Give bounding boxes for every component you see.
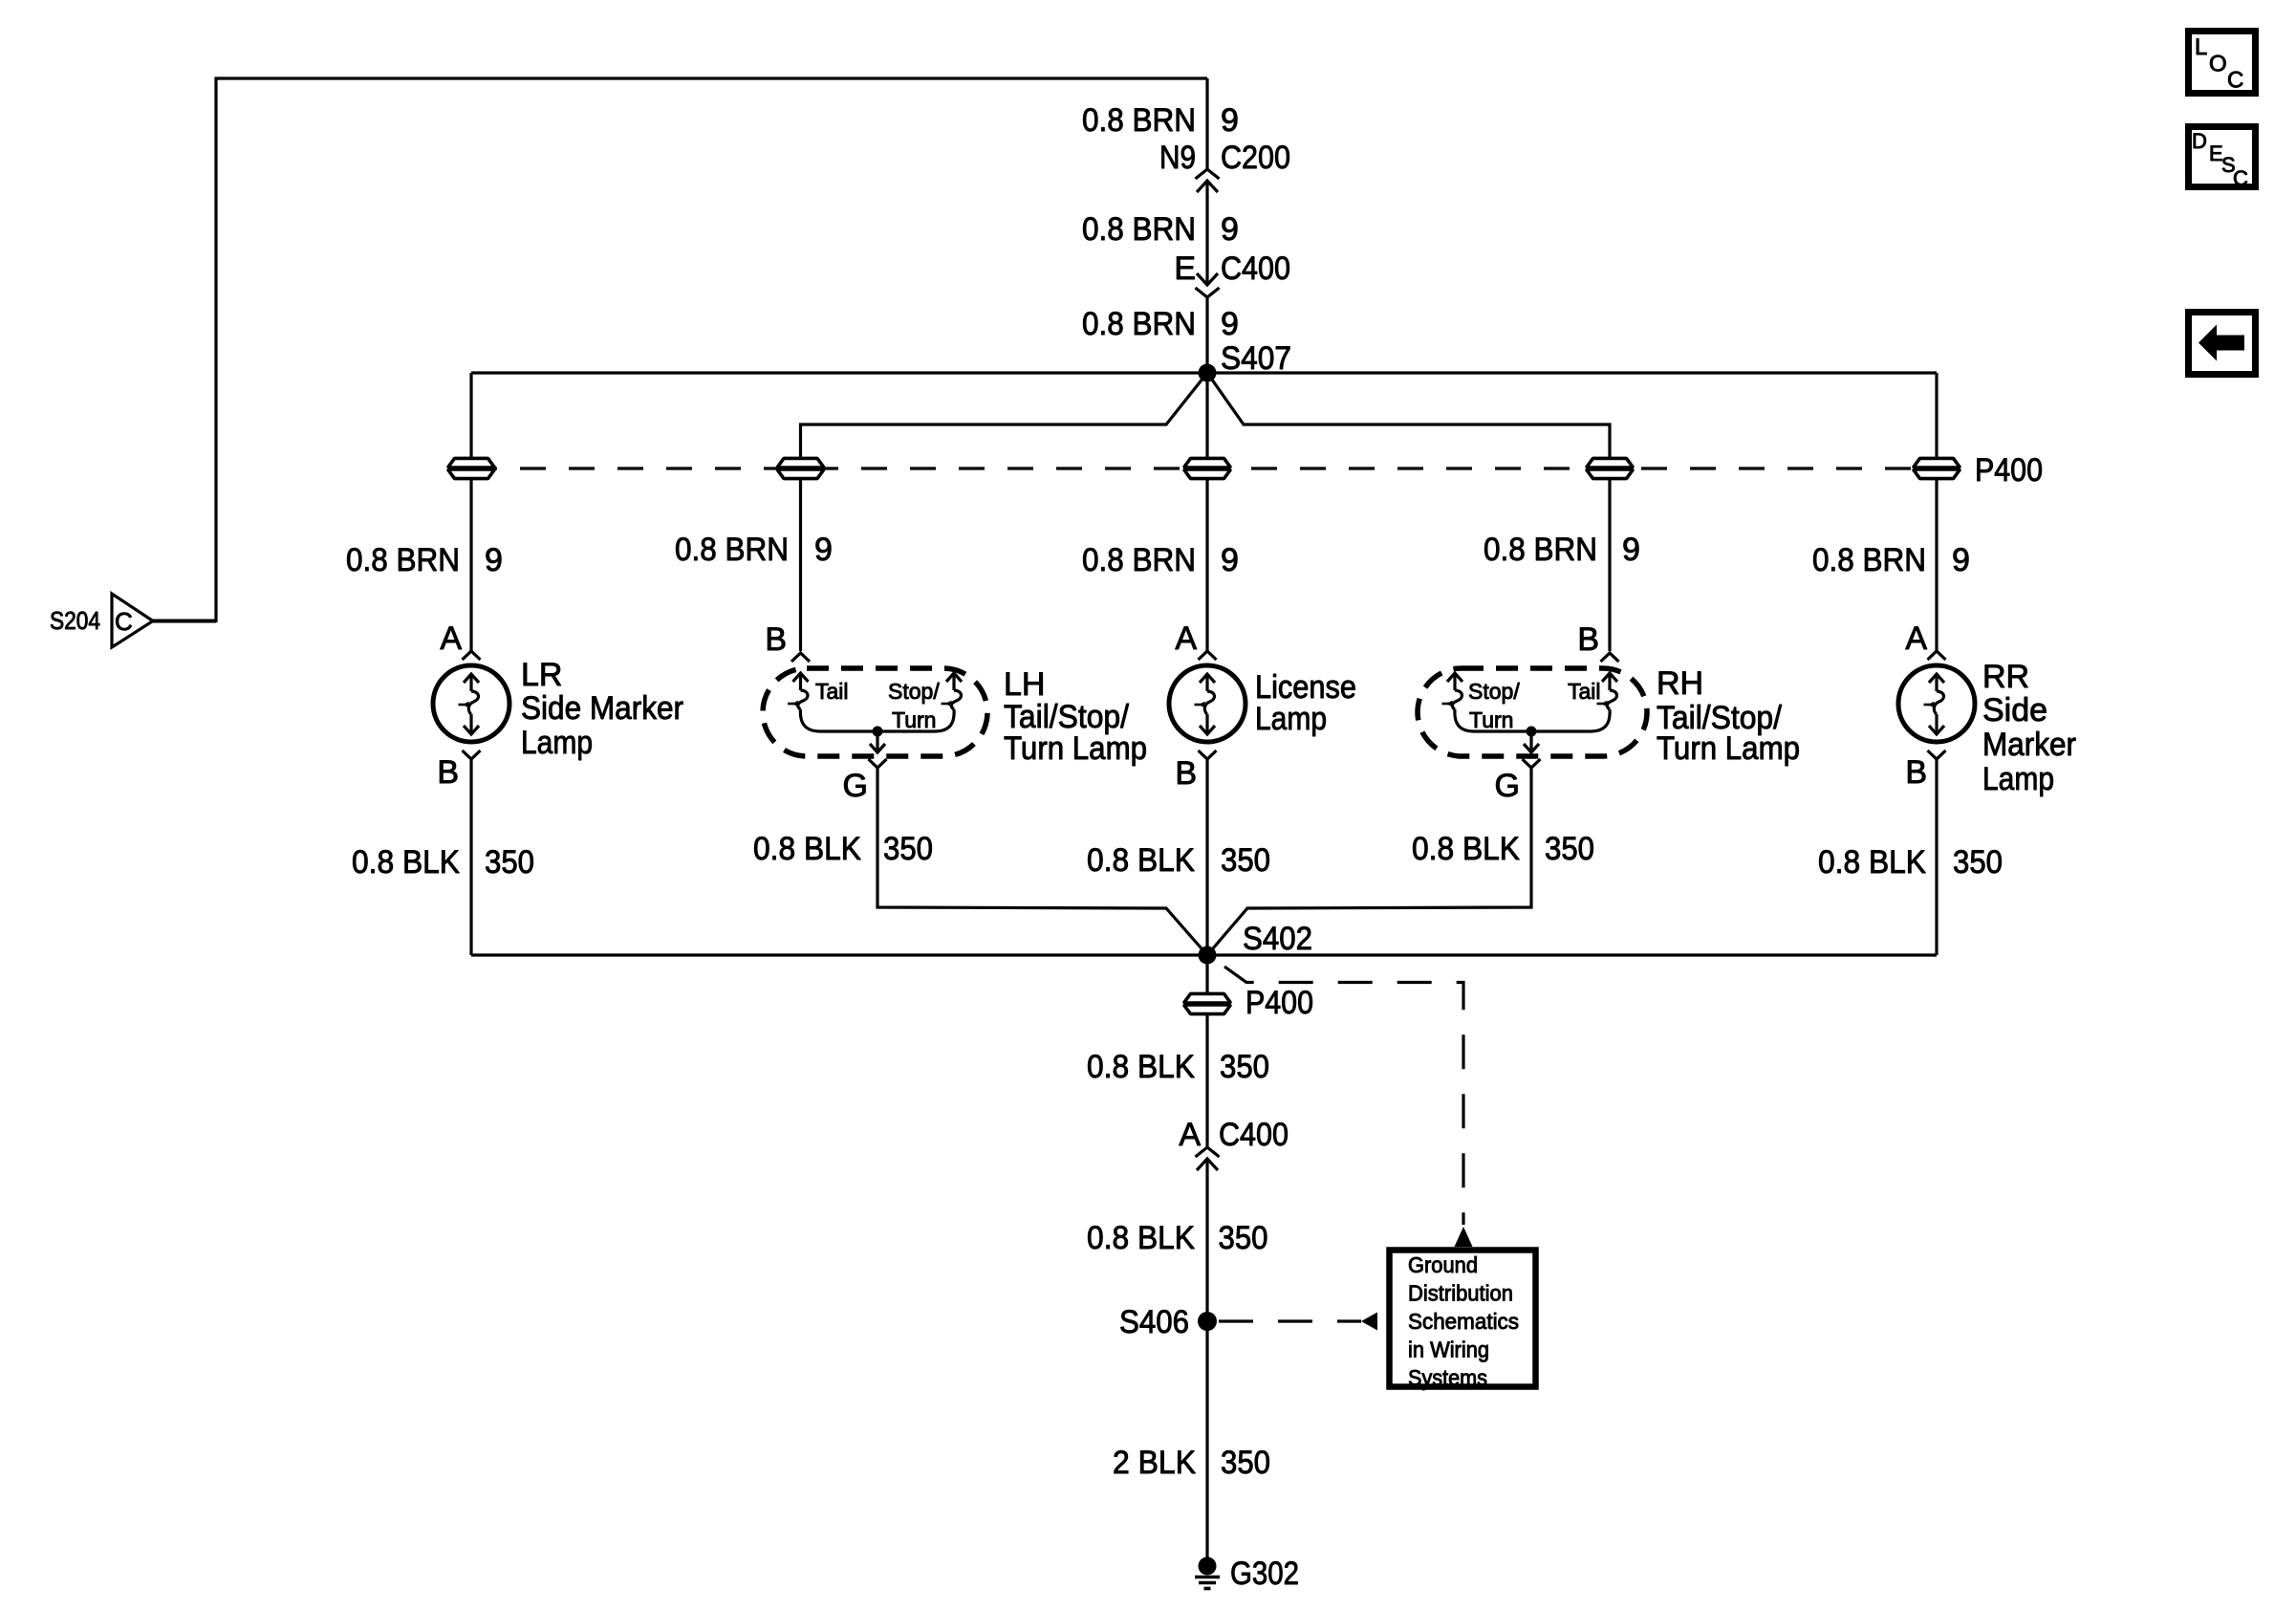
wire dashed reference S406 to ground-distribution box (1219, 1319, 1361, 1322)
wire between C200 and C400 (1205, 181, 1208, 285)
wire License lamp to S402 (1205, 759, 1208, 955)
svg-text:B: B (437, 754, 459, 791)
lamp LH Stop/Turn bulb (946, 673, 962, 682)
svg-text:RH: RH (1657, 665, 1703, 702)
svg-text:LH: LH (1004, 666, 1045, 703)
svg-text:C: C (115, 607, 133, 636)
lamp LH Tail/Stop/Turn Lamp dashed housing (763, 668, 987, 756)
connector P400 grommet (LR branch) (448, 458, 495, 468)
svg-text:9: 9 (1221, 102, 1239, 139)
svg-text:in Wiring: in Wiring (1408, 1338, 1489, 1362)
svg-text:0.8 BRN: 0.8 BRN (1082, 211, 1196, 248)
wire RR drop from bus (1935, 373, 1938, 458)
svg-text:P400: P400 (1975, 452, 2043, 489)
svg-text:9: 9 (485, 542, 503, 578)
lamp LH inner dual-filament bus (800, 709, 954, 731)
svg-text:Stop/: Stop/ (888, 679, 940, 704)
svg-text:G: G (1495, 768, 1520, 804)
svg-text:S407: S407 (1221, 340, 1291, 377)
wire branch drop below P400 (1205, 479, 1208, 651)
svg-text:350: 350 (1221, 842, 1270, 879)
wire S402 bus horizontal (471, 953, 1937, 956)
svg-text:E: E (1174, 250, 1196, 287)
svg-text:0.8 BLK: 0.8 BLK (1087, 842, 1195, 879)
svg-text:350: 350 (1953, 844, 2003, 881)
svg-text:D: D (2192, 129, 2207, 153)
splice S407 junction dot (1199, 364, 1217, 382)
pin G of RH Tail/Stop/Turn Lamp (1523, 759, 1541, 768)
reference arrowhead (left) at box side (1361, 1313, 1377, 1331)
wire LR drop from bus (469, 373, 472, 458)
connector C400-A symbol (chevron + arrow) (1196, 1147, 1220, 1157)
svg-text:A: A (1179, 1117, 1201, 1153)
wire P400 to C400 pin A (1205, 1014, 1208, 1146)
lamp License Lamp (bulb) (1169, 665, 1245, 742)
svg-text:G: G (843, 768, 868, 804)
svg-text:9: 9 (1221, 542, 1239, 578)
node LOC nav box (2189, 32, 2256, 94)
svg-text:Side Marker: Side Marker (521, 690, 683, 727)
svg-text:Lamp: Lamp (1982, 761, 2054, 797)
svg-text:0.8 BRN: 0.8 BRN (1082, 306, 1196, 342)
svg-text:350: 350 (485, 844, 534, 881)
wire branch drop below P400 (1935, 479, 1938, 651)
connector P400 grommet (RR branch) (1914, 458, 1960, 468)
svg-text:Distribution: Distribution (1408, 1281, 1513, 1306)
pin B of RR Side Marker Lamp (1928, 751, 1946, 759)
node LH filament junction (873, 727, 883, 737)
wire diagonal S407 to LH branch (801, 373, 1208, 458)
connector terminal triangle C (from S204) (112, 594, 153, 647)
svg-text:0.8 BRN: 0.8 BRN (1812, 542, 1926, 578)
lamp LR Side Marker Lamp (bulb) (433, 665, 509, 742)
svg-text:0.8 BLK: 0.8 BLK (1087, 1049, 1195, 1085)
wire riser into C200 (1205, 78, 1208, 168)
svg-text:C: C (2227, 68, 2243, 94)
svg-text:Turn Lamp: Turn Lamp (1657, 730, 1800, 767)
svg-text:Ground: Ground (1408, 1252, 1478, 1277)
svg-text:9: 9 (1622, 532, 1640, 568)
svg-text:P400: P400 (1245, 985, 1313, 1021)
svg-text:0.8 BLK: 0.8 BLK (1818, 844, 1926, 881)
lamp RR Side Marker Lamp (bulb) (1898, 665, 1975, 742)
wire LH ground to S402 (877, 768, 1207, 955)
lamp RH inner dual-filament bus (1455, 709, 1610, 731)
svg-text:G302: G302 (1230, 1556, 1299, 1592)
svg-text:B: B (765, 621, 787, 658)
svg-text:Stop/: Stop/ (1468, 679, 1520, 704)
svg-text:S402: S402 (1243, 921, 1312, 957)
wire S402 down to P400 (1205, 955, 1208, 994)
svg-text:0.8 BRN: 0.8 BRN (346, 542, 460, 578)
connector C400 symbol (arrow + chevron) (1197, 273, 1218, 285)
svg-text:0.8 BLK: 0.8 BLK (352, 844, 460, 881)
node RH filament junction (1527, 727, 1537, 737)
svg-text:C400: C400 (1221, 250, 1290, 287)
wire branch drop below P400 (1608, 479, 1611, 651)
wire dashed reference S402 to ground-distribution box (1224, 967, 1463, 1225)
svg-text:A: A (1905, 620, 1927, 657)
svg-text:9: 9 (1221, 306, 1239, 342)
node DESC nav box (2189, 127, 2256, 187)
connector P400 dashed harness line (471, 467, 1937, 469)
connector P400 grommet (RH branch) (1587, 458, 1634, 468)
svg-text:9: 9 (814, 532, 833, 568)
svg-text:C400: C400 (1219, 1117, 1289, 1153)
pin B of LR Side Marker Lamp (463, 751, 481, 759)
svg-text:0.8 BLK: 0.8 BLK (753, 831, 861, 867)
svg-text:Turn Lamp: Turn Lamp (1004, 730, 1147, 767)
svg-text:9: 9 (1952, 542, 1970, 578)
pin G of LH Tail/Stop/Turn Lamp (869, 759, 887, 768)
svg-text:Lamp: Lamp (1255, 701, 1327, 737)
svg-text:350: 350 (1219, 1220, 1268, 1256)
svg-text:RR: RR (1982, 659, 2029, 695)
svg-text:350: 350 (1220, 1049, 1269, 1085)
lamp RH Tail bulb (1602, 673, 1617, 682)
svg-text:Turn: Turn (892, 707, 936, 732)
connector P400 grommet (LH branch) (777, 458, 824, 468)
svg-text:350: 350 (1221, 1445, 1270, 1481)
lamp LH Tail bulb (793, 673, 809, 682)
ground G302 symbol (1199, 1557, 1217, 1576)
wire RH ground to S402 (1207, 768, 1531, 955)
node back-arrow nav box (2189, 313, 2256, 375)
connector P400 grommet (License branch) (1184, 458, 1231, 468)
svg-text:S406: S406 (1119, 1304, 1189, 1340)
splice S402 junction dot (1199, 946, 1217, 965)
svg-text:S204: S204 (50, 606, 100, 635)
svg-text:0.8 BLK: 0.8 BLK (1087, 1220, 1195, 1256)
wire from S204 triangle to riser corner (153, 620, 216, 623)
connector C200 symbol (chevron + arrow) (1196, 169, 1220, 179)
svg-text:350: 350 (883, 831, 933, 867)
wire C400 to splice S407 (1205, 297, 1208, 373)
svg-text:A: A (440, 620, 462, 657)
svg-text:350: 350 (1545, 831, 1594, 867)
svg-text:0.8 BRN: 0.8 BRN (675, 532, 789, 568)
wire branch drop below P400 (799, 479, 802, 651)
wire LH ground exit arrow (876, 731, 878, 750)
svg-text:Schematics: Schematics (1408, 1309, 1519, 1334)
svg-text:Marker: Marker (1982, 727, 2076, 763)
node Ground Distribution Schematics reference box (1390, 1251, 1536, 1387)
svg-text:L: L (2195, 34, 2207, 60)
wire LR lamp to S402 bus (469, 759, 472, 955)
wire diagonal S407 to RH branch (1207, 373, 1610, 458)
svg-text:LR: LR (521, 657, 562, 693)
svg-text:Tail: Tail (1568, 679, 1601, 704)
wire branch drop below P400 (469, 479, 472, 651)
svg-text:Systems: Systems (1408, 1365, 1487, 1390)
svg-text:C200: C200 (1221, 140, 1290, 176)
svg-text:Lamp: Lamp (521, 725, 593, 761)
wire License drop from S407 (1205, 373, 1208, 458)
splice S406 junction dot (1198, 1312, 1217, 1331)
svg-text:Side: Side (1982, 692, 2047, 729)
svg-text:9: 9 (1221, 211, 1239, 248)
svg-text:0.8 BRN: 0.8 BRN (1082, 542, 1196, 578)
svg-text:0.8 BRN: 0.8 BRN (1082, 102, 1196, 139)
svg-text:0.8 BLK: 0.8 BLK (1412, 831, 1520, 867)
connector P400 grommet (ground lead) (1184, 993, 1231, 1003)
svg-text:B: B (1905, 754, 1927, 791)
wire RR lamp to S402 bus (1935, 759, 1938, 955)
reference arrowhead (up) at box top (1455, 1227, 1473, 1247)
svg-text:O: O (2209, 52, 2227, 77)
svg-text:B: B (1175, 755, 1197, 792)
svg-text:Tail: Tail (815, 679, 849, 704)
lamp RH Stop/Turn bulb (1447, 673, 1462, 682)
wire RH ground exit arrow (1529, 731, 1532, 750)
wire C400-A down to S406 (1205, 1159, 1208, 1558)
svg-text:C: C (2233, 166, 2248, 190)
svg-text:A: A (1175, 620, 1197, 657)
svg-text:0.8 BRN: 0.8 BRN (1484, 532, 1597, 568)
pin B of License Lamp (1199, 751, 1217, 759)
lamp RH Tail/Stop/Turn Lamp dashed housing (1418, 668, 1647, 756)
svg-text:B: B (1577, 621, 1599, 658)
svg-text:N9: N9 (1159, 140, 1196, 176)
svg-text:2 BLK: 2 BLK (1113, 1445, 1196, 1481)
wire left riser up and top horizontal feed (216, 78, 1207, 622)
svg-text:Turn: Turn (1469, 707, 1513, 732)
wire S407 bus horizontal (471, 371, 1937, 374)
